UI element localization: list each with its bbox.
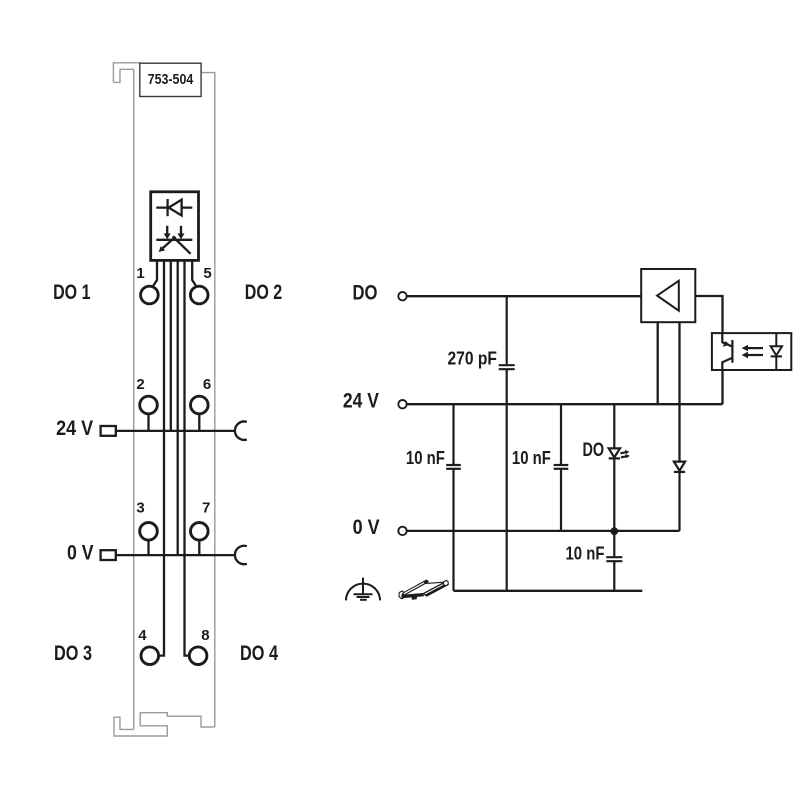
svg-text:1: 1 [136,265,144,282]
wire DO line [407,295,642,297]
diode D-top in U1 [156,199,192,216]
wire U2 out to opto [695,296,722,333]
svg-text:7: 7 [202,500,210,517]
svg-text:6: 6 [203,376,211,393]
terminal 7 [191,523,209,541]
svg-text:0 V: 0 V [67,541,94,564]
svg-text:0 V: 0 V [353,516,380,539]
node 0V terminal [398,527,406,535]
terminal 5 [190,286,208,304]
svg-text:DO 3: DO 3 [54,642,92,665]
wire pin1 [152,260,157,287]
wire right edge [202,73,215,727]
light arrows in U3 [748,348,764,355]
svg-text:3: 3 [136,500,144,517]
svg-text:270 pF: 270 pF [448,348,497,369]
wire opto emitter to 24V [721,370,723,404]
wire pin8 [185,260,190,655]
svg-text:2: 2 [136,376,144,393]
transistor Q1 in U3 [722,333,732,370]
connector arc 24V [235,422,247,440]
wire stub 7 [198,540,200,555]
right foot [443,580,448,586]
pin wires from U1 [152,260,197,655]
svg-text:5: 5 [203,265,211,282]
wire to 0V [177,260,179,555]
channel floor [404,582,445,595]
LED DO indicator [609,404,627,531]
ground earth symbol [346,578,380,601]
wire top-left inner step [113,69,133,729]
svg-text:753-504: 753-504 [148,72,194,88]
DIN rail symbol [399,580,448,600]
wire U2 pin to diode D2 [678,322,680,461]
24V power rail left [101,422,247,440]
connector arc 0V [235,546,247,564]
terminal 3 [140,523,158,541]
wire 24V rail [407,403,723,405]
0V power rail left [101,546,247,564]
wire 24V rail [115,430,236,432]
node DO terminal [398,292,406,300]
output symbol in U1 [156,226,192,254]
module 753-504 body outline [113,63,214,736]
svg-text:24 V: 24 V [343,390,379,413]
svg-text:4: 4 [138,627,147,644]
wire 0V rail [115,554,236,556]
wire pin4 [159,260,164,655]
terminal 4 [141,647,159,665]
label box 753-504 [140,63,201,96]
wire pin5 [192,260,197,287]
wire top-left notch [113,63,140,83]
bottom plate dark strip with notch [401,593,424,599]
node 24V terminal [398,400,406,408]
svg-text:8: 8 [201,627,209,644]
diode D2 [674,462,685,531]
left foot [399,591,405,599]
capacitor C2 10nF [446,404,461,591]
wire bottom foot [114,713,215,736]
wire bottom ground rail [454,590,643,592]
wire U2 power pin [657,322,659,404]
capacitor C4 10nF [606,531,622,591]
terminal stubs [149,414,200,555]
wire to 24V [170,260,172,431]
wire stub 3 [147,540,149,555]
svg-text:24 V: 24 V [56,417,93,440]
optocoupler U3 [712,333,791,370]
terminal 6 [191,396,209,414]
back ridge bar [403,581,426,595]
capacitor C1 270pF [499,296,515,591]
front ridge top white strip [425,583,446,594]
wire 0V rail [407,530,680,532]
terminal 8 [189,647,207,665]
diode LED in U3 [771,333,782,370]
svg-text:DO 4: DO 4 [240,642,278,665]
svg-text:DO 1: DO 1 [53,281,91,304]
svg-text:10 nF: 10 nF [512,447,551,468]
junction dot 0V [610,527,618,535]
wire stub 6 [198,414,200,431]
svg-text:DO: DO [353,282,378,305]
svg-text:DO 2: DO 2 [245,281,282,304]
back ridge right cap [424,580,428,583]
front ridge bar dark [423,582,448,596]
op-amp U1 output driver box [151,192,199,261]
clamp 24V [101,426,116,436]
svg-text:DO: DO [583,440,605,461]
terminal 2 [140,396,158,414]
back ridge left cap [402,593,405,596]
svg-text:10 nF: 10 nF [406,447,445,468]
op-amp U2 driver [641,269,695,322]
wire stub 2 [147,414,149,431]
svg-text:10 nF: 10 nF [566,542,605,563]
terminal 1 [141,286,159,304]
capacitor C3 10nF [554,404,569,531]
clamp 0V [101,550,116,560]
